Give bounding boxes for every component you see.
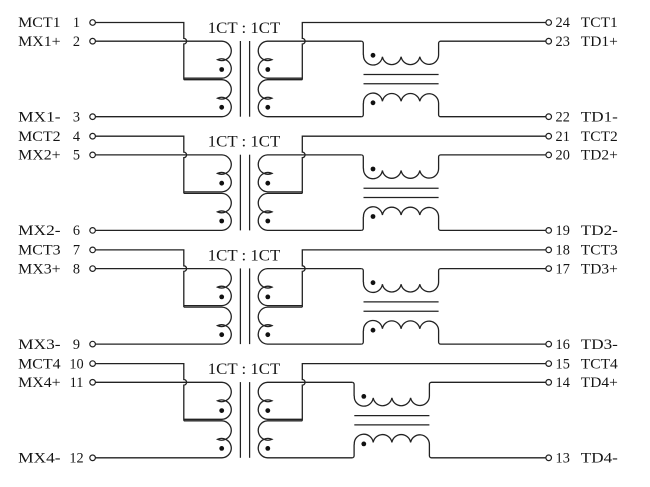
svg-text:24: 24 xyxy=(556,15,570,31)
transformer T3 core xyxy=(240,268,249,344)
pin 24 terminal circle xyxy=(546,20,552,26)
pin 10 terminal circle xyxy=(90,361,96,367)
polarity dot, choke L4 lower xyxy=(361,442,366,447)
pin 8 terminal circle xyxy=(90,266,96,272)
svg-text:MX1-: MX1- xyxy=(18,109,61,125)
wire pin 24 (TCT1) to secondary center tap, with crossover hop over TD1+ wire xyxy=(302,23,546,80)
polarity dot, T4 secondary upper xyxy=(265,408,270,413)
transformer T4 primary winding upper half, wire from pin 11 xyxy=(95,382,231,419)
common-mode choke L3 lower winding, wire continues to pin 16 xyxy=(361,320,546,344)
choke L2 core xyxy=(364,188,439,197)
svg-text:TD3+: TD3+ xyxy=(581,261,618,277)
common-mode choke L2 lower winding, wire continues to pin 19 xyxy=(361,207,546,231)
wire pin 7 (MCT3) to primary center tap, with crossover hop over MX3+ wire xyxy=(95,250,186,307)
polarity dot, T2 secondary upper xyxy=(265,181,270,186)
transformer T4 secondary winding upper half, wire to choke xyxy=(258,382,352,419)
svg-text:19: 19 xyxy=(556,223,570,239)
svg-text:TCT1: TCT1 xyxy=(581,15,618,31)
svg-text:1CT : 1CT: 1CT : 1CT xyxy=(208,20,281,37)
svg-text:MX2-: MX2- xyxy=(18,223,61,239)
transformer T2 primary winding lower half, wire to pin 6 xyxy=(95,193,231,230)
transformer T2 primary winding upper half, wire from pin 5 xyxy=(95,155,231,192)
svg-text:8: 8 xyxy=(73,261,80,277)
polarity dot, choke L2 lower xyxy=(371,214,376,219)
svg-text:TD2+: TD2+ xyxy=(581,148,618,164)
polarity dot, choke L2 upper xyxy=(371,167,376,172)
svg-text:TD1+: TD1+ xyxy=(581,34,618,50)
svg-text:15: 15 xyxy=(556,356,570,372)
svg-text:MX4-: MX4- xyxy=(18,451,61,467)
wire pin 18 (TCT3) to secondary center tap, with crossover hop over TD3+ wire xyxy=(302,250,546,307)
common-mode choke L3 upper winding, wire continues to pin 17 xyxy=(361,269,546,293)
svg-text:3: 3 xyxy=(73,109,80,125)
wire pin 4 (MCT2) to primary center tap, with crossover hop over MX2+ wire xyxy=(95,136,186,193)
polarity dot, T4 secondary lower xyxy=(265,446,270,451)
pin 5 terminal circle xyxy=(90,152,96,158)
transformer T3 primary winding upper half, wire from pin 8 xyxy=(95,269,231,306)
svg-text:MX1+: MX1+ xyxy=(18,34,61,50)
svg-text:6: 6 xyxy=(73,223,80,239)
svg-text:TD3-: TD3- xyxy=(581,337,618,353)
svg-text:TD4-: TD4- xyxy=(581,451,618,467)
polarity dot, T3 primary lower xyxy=(219,332,224,337)
svg-text:TD2-: TD2- xyxy=(581,223,618,239)
svg-text:MCT1: MCT1 xyxy=(18,15,61,31)
transformer T2 core xyxy=(240,155,249,231)
svg-text:MX3-: MX3- xyxy=(18,337,61,353)
pin 1 terminal circle xyxy=(90,20,96,26)
pin 17 terminal circle xyxy=(546,266,552,272)
svg-text:1CT : 1CT: 1CT : 1CT xyxy=(208,361,281,378)
svg-text:TCT4: TCT4 xyxy=(581,356,618,372)
transformer T4 core xyxy=(240,382,249,458)
pin 21 terminal circle xyxy=(546,133,552,139)
svg-text:20: 20 xyxy=(556,148,570,164)
svg-text:MCT2: MCT2 xyxy=(18,129,61,145)
transformer T1 primary winding lower half, wire to pin 3 xyxy=(95,80,231,117)
svg-text:MCT3: MCT3 xyxy=(18,243,61,259)
polarity dot, T1 secondary upper xyxy=(265,67,270,72)
pin 22 terminal circle xyxy=(546,114,552,120)
transformer T4 secondary winding lower half, wire to choke xyxy=(258,421,352,458)
svg-text:23: 23 xyxy=(556,34,570,50)
polarity dot, T3 primary upper xyxy=(219,295,224,300)
polarity dot, choke L1 lower xyxy=(371,100,376,105)
pin 6 terminal circle xyxy=(90,228,96,234)
polarity dot, T1 primary upper xyxy=(219,67,224,72)
pin 23 terminal circle xyxy=(546,38,552,44)
wire pin 10 (MCT4) to primary center tap, with crossover hop over MX4+ wire xyxy=(95,364,186,421)
transformer T2 secondary winding upper half, wire to choke xyxy=(258,155,361,192)
svg-text:13: 13 xyxy=(556,451,570,467)
svg-text:MX3+: MX3+ xyxy=(18,261,61,277)
transformer T1 core xyxy=(240,41,249,117)
svg-text:TCT3: TCT3 xyxy=(581,243,618,259)
svg-text:MCT4: MCT4 xyxy=(18,356,61,372)
svg-text:12: 12 xyxy=(69,451,83,467)
pin 14 terminal circle xyxy=(546,380,552,386)
pin 4 terminal circle xyxy=(90,133,96,139)
polarity dot, T2 primary upper xyxy=(219,181,224,186)
pin 16 terminal circle xyxy=(546,341,552,347)
pin 18 terminal circle xyxy=(546,247,552,253)
pin 19 terminal circle xyxy=(546,228,552,234)
polarity dot, T2 secondary lower xyxy=(265,219,270,224)
pin 13 terminal circle xyxy=(546,455,552,461)
svg-text:10: 10 xyxy=(69,356,83,372)
pin 11 terminal circle xyxy=(90,380,96,386)
transformer T1 secondary winding upper half, wire to choke xyxy=(258,41,361,78)
svg-text:MX4+: MX4+ xyxy=(18,375,61,391)
svg-text:TD1-: TD1- xyxy=(581,109,618,125)
choke L4 core xyxy=(354,416,429,425)
svg-text:7: 7 xyxy=(73,243,80,259)
pin 9 terminal circle xyxy=(90,341,96,347)
svg-text:14: 14 xyxy=(556,375,570,391)
choke L3 core xyxy=(364,302,439,311)
pin 3 terminal circle xyxy=(90,114,96,120)
polarity dot, T1 primary lower xyxy=(219,105,224,110)
svg-text:11: 11 xyxy=(70,375,84,391)
polarity dot, choke L4 upper xyxy=(361,394,366,399)
polarity dot, T4 primary lower xyxy=(219,446,224,451)
pin 12 terminal circle xyxy=(90,455,96,461)
polarity dot, choke L3 upper xyxy=(371,280,376,285)
pin 20 terminal circle xyxy=(546,152,552,158)
pin 7 terminal circle xyxy=(90,247,96,253)
svg-text:18: 18 xyxy=(556,243,570,259)
transformer T1 secondary winding lower half, wire to choke xyxy=(258,80,361,117)
common-mode choke L4 lower winding, wire continues to pin 13 xyxy=(352,434,546,458)
svg-text:1CT : 1CT: 1CT : 1CT xyxy=(208,247,281,264)
svg-text:16: 16 xyxy=(556,337,570,353)
transformer T1 primary winding upper half, wire from pin 2 xyxy=(95,41,231,78)
pin 2 terminal circle xyxy=(90,38,96,44)
svg-text:4: 4 xyxy=(73,129,80,145)
polarity dot, T1 secondary lower xyxy=(265,105,270,110)
wire pin 15 (TCT4) to secondary center tap, with crossover hop over TD4+ wire xyxy=(302,364,546,421)
polarity dot, choke L1 upper xyxy=(371,53,376,58)
transformer T4 primary winding lower half, wire to pin 12 xyxy=(95,421,231,458)
transformer T3 secondary winding upper half, wire to choke xyxy=(258,269,361,306)
svg-text:21: 21 xyxy=(556,129,570,145)
svg-text:TCT2: TCT2 xyxy=(581,129,618,145)
polarity dot, T4 primary upper xyxy=(219,408,224,413)
wire pin 21 (TCT2) to secondary center tap, with crossover hop over TD2+ wire xyxy=(302,136,546,193)
common-mode choke L1 upper winding, wire continues to pin 23 xyxy=(361,41,546,65)
svg-text:9: 9 xyxy=(73,337,80,353)
svg-text:1CT : 1CT: 1CT : 1CT xyxy=(208,134,281,151)
svg-text:2: 2 xyxy=(73,34,80,50)
polarity dot, T3 secondary lower xyxy=(265,332,270,337)
transformer T3 primary winding lower half, wire to pin 9 xyxy=(95,307,231,344)
common-mode choke L1 lower winding, wire continues to pin 22 xyxy=(361,93,546,117)
svg-text:17: 17 xyxy=(556,261,570,277)
svg-text:1: 1 xyxy=(73,15,80,31)
svg-text:5: 5 xyxy=(73,148,80,164)
polarity dot, T2 primary lower xyxy=(219,219,224,224)
polarity dot, choke L3 lower xyxy=(371,328,376,333)
choke L1 core xyxy=(364,75,439,84)
svg-text:MX2+: MX2+ xyxy=(18,148,61,164)
svg-text:TD4+: TD4+ xyxy=(581,375,618,391)
svg-text:22: 22 xyxy=(556,109,570,125)
wire pin 1 (MCT1) to primary center tap, with crossover hop over MX1+ wire xyxy=(95,23,186,80)
common-mode choke L4 upper winding, wire continues to pin 14 xyxy=(352,382,546,406)
transformer T2 secondary winding lower half, wire to choke xyxy=(258,193,361,230)
polarity dot, T3 secondary upper xyxy=(265,295,270,300)
transformer T3 secondary winding lower half, wire to choke xyxy=(258,307,361,344)
common-mode choke L2 upper winding, wire continues to pin 20 xyxy=(361,155,546,179)
pin 15 terminal circle xyxy=(546,361,552,367)
